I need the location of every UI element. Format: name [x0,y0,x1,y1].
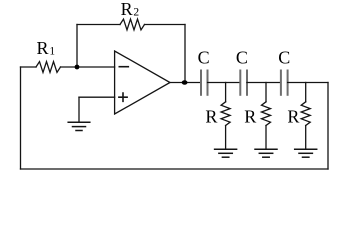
ground (shunt 2) [255,149,277,157]
junction node A (inverting input) [75,65,80,70]
capacitor C3 [281,71,288,95]
wire: R1 to op-amp inverting input [61,66,115,68]
wire: feedback right vertical [184,25,186,83]
resistor R1 [21,62,61,73]
svg-text:R: R [244,107,256,127]
wire: C2 to node 2 [247,82,281,84]
wire: C3 to right rail [288,82,328,84]
wire: bottom rail [21,168,329,170]
ground (shunt 1) [215,149,237,157]
resistor R (shunt 1) [221,83,230,149]
resistor R (shunt 2) [262,83,271,149]
svg-text:R: R [205,107,217,127]
svg-text:C: C [278,48,290,68]
svg-text:R: R [287,107,299,127]
op-amp U1 [115,51,170,114]
junction node B (op-amp output) [182,80,188,85]
svg-text:C: C [236,48,248,68]
capacitor C2 [240,71,247,95]
ground (shunt 3) [295,149,317,157]
wire: left rail (node D up to R1 input) [20,67,22,169]
wire: C1 to node 1 [208,82,241,84]
wire: feedback left vertical [76,25,78,68]
svg-text:R1: R1 [37,38,56,58]
resistor R2 [77,19,185,30]
wire: non-inverting input [79,96,115,98]
resistor R (shunt 3) [301,83,310,149]
wire: right rail [327,83,329,170]
svg-text:C: C [198,48,210,68]
wire: non-inverting input down to ground [78,97,80,122]
ground (op-amp non-inverting input) [68,122,90,130]
capacitor C1 [201,71,208,95]
wire: op-amp output [170,82,201,84]
svg-text:R2: R2 [121,0,140,19]
